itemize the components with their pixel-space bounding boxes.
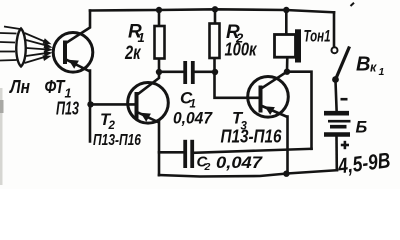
svg-text:Тон1: Тон1 xyxy=(304,27,331,46)
svg-text:4,5-9В: 4,5-9В xyxy=(336,148,392,178)
svg-text:2к: 2к xyxy=(124,43,141,64)
svg-text:100к: 100к xyxy=(225,39,258,60)
svg-text:Лн: Лн xyxy=(8,77,30,97)
svg-text:0,047: 0,047 xyxy=(216,153,264,172)
svg-text:2: 2 xyxy=(204,161,211,173)
svg-text:П13-П16: П13-П16 xyxy=(221,127,283,147)
svg-text:П13: П13 xyxy=(56,98,79,119)
svg-text:Б: Б xyxy=(356,119,368,137)
svg-text:ФТ: ФТ xyxy=(45,76,66,97)
svg-text:1: 1 xyxy=(379,66,385,78)
svg-text:П13-П16: П13-П16 xyxy=(93,132,141,149)
svg-text:2: 2 xyxy=(108,120,116,132)
svg-text:к: к xyxy=(370,61,377,75)
svg-text:В: В xyxy=(356,54,370,76)
svg-text:0,047: 0,047 xyxy=(173,109,213,128)
